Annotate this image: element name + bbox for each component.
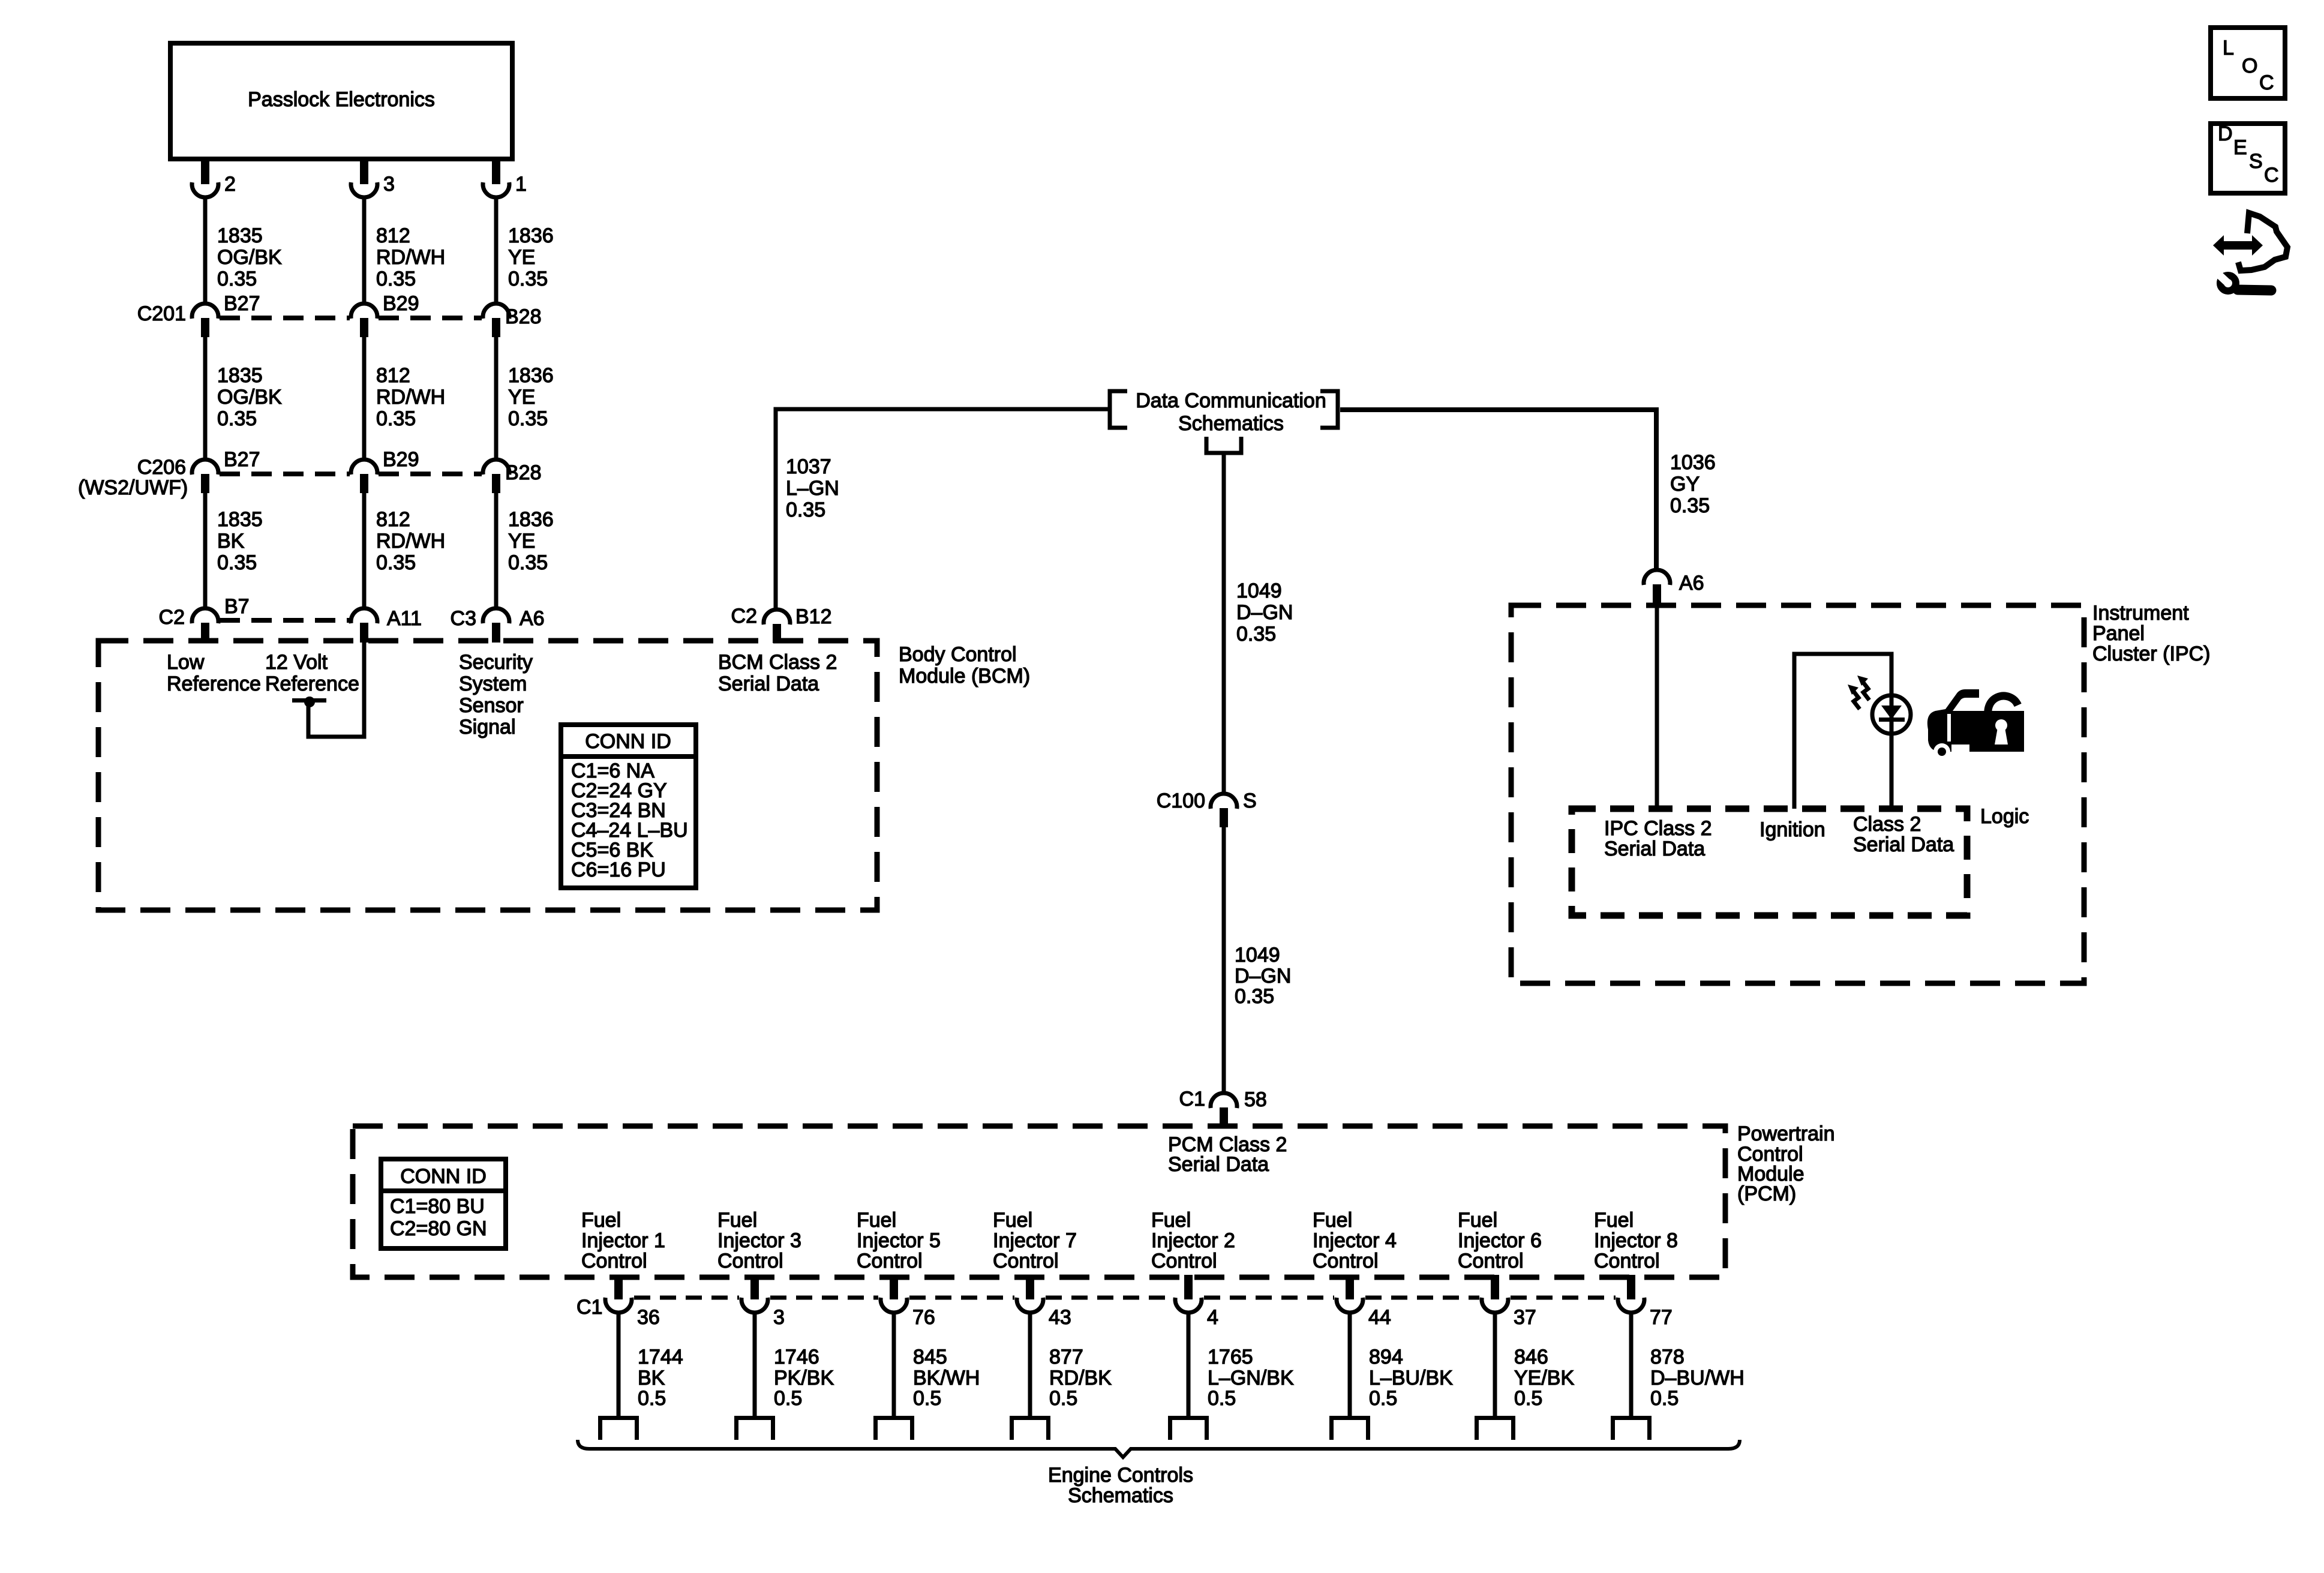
PCM pin 43 connector (injector 7) <box>1017 1275 1071 1329</box>
BCM connector C3 pin A6 <box>451 607 545 643</box>
svg-text:PK/BK: PK/BK <box>774 1367 834 1389</box>
svg-text:YE: YE <box>508 386 535 409</box>
PCM pin 76 connector (injector 5) <box>881 1275 935 1329</box>
svg-text:1836: 1836 <box>508 224 554 247</box>
svg-text:C2: C2 <box>731 605 757 628</box>
svg-text:0.5: 0.5 <box>1208 1387 1236 1410</box>
svg-text:0.35: 0.35 <box>1235 985 1274 1008</box>
svg-text:A11: A11 <box>387 607 422 630</box>
PCM pin 37 connector (injector 6) <box>1482 1275 1536 1329</box>
svg-text:3: 3 <box>383 173 395 196</box>
PCM pin 44 connector (injector 4) <box>1337 1275 1391 1329</box>
svg-text:GY: GY <box>1670 473 1700 496</box>
svg-text:43: 43 <box>1049 1306 1071 1329</box>
Fuel Injector 1 Control label <box>581 1209 665 1272</box>
svg-text:3: 3 <box>773 1306 785 1329</box>
svg-text:Fuel: Fuel <box>1151 1209 1191 1232</box>
svg-text:845: 845 <box>913 1346 947 1368</box>
svg-text:1765: 1765 <box>1208 1346 1253 1368</box>
service harness icon <box>2213 213 2287 291</box>
C206 dashed connector line <box>220 472 482 476</box>
Fuel Injector 3 Control label <box>717 1209 801 1272</box>
wire col3 segment C201 to C206 <box>494 337 499 460</box>
injector 1 harness terminator <box>598 1416 639 1440</box>
Powertrain Control Module (PCM) title <box>1737 1122 1835 1205</box>
Passlock Electronics box <box>170 43 512 159</box>
svg-text:B27: B27 <box>224 292 260 315</box>
injector 8 harness terminator <box>1611 1416 1652 1440</box>
svg-text:Serial Data: Serial Data <box>718 673 819 695</box>
Low Reference label <box>167 651 261 695</box>
Powertrain Control Module (PCM) dashed box <box>353 1126 1725 1277</box>
svg-text:System: System <box>459 673 527 695</box>
svg-text:0.35: 0.35 <box>376 551 416 574</box>
svg-text:0.35: 0.35 <box>217 268 257 290</box>
wire 1765 L–GN/BK segment <box>1187 1313 1191 1416</box>
PCM pin 3 connector (injector 3) <box>741 1275 785 1329</box>
svg-text:A6: A6 <box>520 607 545 630</box>
Passlock pin 1 connector <box>483 158 527 197</box>
svg-text:C1=80 BU: C1=80 BU <box>390 1195 485 1218</box>
svg-text:0.5: 0.5 <box>913 1387 941 1410</box>
IPC Logic dashed box <box>1572 809 1967 915</box>
PCM Class 2 Serial Data label <box>1168 1133 1287 1176</box>
svg-text:Control: Control <box>1151 1250 1217 1272</box>
security icon padlock <box>1977 691 2024 752</box>
wire label 1835 OG/BK 0.35 (upper) <box>217 224 282 290</box>
Class 2 Serial Data label <box>1853 813 1954 856</box>
svg-text:Instrument: Instrument <box>2092 602 2189 625</box>
wire label 1835 BK 0.35 (lower) <box>217 508 263 574</box>
svg-text:O: O <box>2242 55 2257 77</box>
svg-text:Powertrain: Powertrain <box>1737 1122 1835 1145</box>
wire label 812 RD/WH 0.35 (upper) <box>376 224 445 290</box>
C201 dashed connector line <box>220 316 482 320</box>
svg-text:RD/WH: RD/WH <box>376 530 445 553</box>
wire A6 to IPC logic <box>1655 604 1659 809</box>
security icon car <box>1927 689 1979 760</box>
svg-text:D–BU/WH: D–BU/WH <box>1650 1367 1744 1389</box>
svg-text:Passlock Electronics: Passlock Electronics <box>248 88 435 111</box>
wire col2 segment C206 to BCM <box>362 493 367 608</box>
svg-text:C: C <box>2259 71 2274 94</box>
svg-text:Engine Controls: Engine Controls <box>1048 1464 1193 1487</box>
svg-text:D: D <box>2218 122 2233 145</box>
svg-text:OG/BK: OG/BK <box>217 386 282 409</box>
svg-text:Body Control: Body Control <box>899 643 1017 666</box>
PCM connector C1 pin 58 <box>1179 1088 1267 1128</box>
svg-text:Fuel: Fuel <box>1458 1209 1497 1232</box>
svg-text:812: 812 <box>376 508 410 531</box>
svg-text:Reference: Reference <box>265 673 359 695</box>
svg-text:0.35: 0.35 <box>376 407 416 430</box>
wire label 1835 OG/BK 0.35 (middle) <box>217 364 282 430</box>
svg-text:0.5: 0.5 <box>1369 1387 1397 1410</box>
wire label 1836 YE 0.35 (middle) <box>508 364 554 430</box>
svg-text:C1: C1 <box>577 1296 602 1319</box>
BCM pin row dashed line <box>220 618 350 623</box>
wire label 846 YE/BK 0.5 <box>1514 1346 1574 1410</box>
wire label 1746 PK/BK 0.5 <box>774 1346 834 1410</box>
svg-text:B12: B12 <box>795 605 832 628</box>
Body Control Module (BCM) title <box>899 643 1030 688</box>
wire 894 L–BU/BK segment <box>1348 1313 1352 1416</box>
wire label 1744 BK 0.5 <box>638 1346 683 1410</box>
svg-text:Injector 3: Injector 3 <box>717 1229 801 1252</box>
svg-text:C206: C206 <box>137 456 186 479</box>
svg-text:Fuel: Fuel <box>717 1209 757 1232</box>
Instrument Panel Cluster (IPC) title <box>2092 602 2210 665</box>
svg-text:44: 44 <box>1368 1306 1391 1329</box>
Fuel Injector 7 Control label <box>993 1209 1077 1272</box>
svg-text:Class 2: Class 2 <box>1853 813 1921 836</box>
svg-text:Fuel: Fuel <box>993 1209 1032 1232</box>
svg-text:BCM Class 2: BCM Class 2 <box>718 651 837 674</box>
svg-text:B7: B7 <box>224 595 250 618</box>
LED arrows <box>1848 676 1869 709</box>
svg-text:(PCM): (PCM) <box>1737 1182 1796 1205</box>
12 volt reference splice terminal <box>292 697 326 707</box>
svg-text:BK: BK <box>638 1367 665 1389</box>
svg-text:A6: A6 <box>1679 572 1704 595</box>
svg-text:0.35: 0.35 <box>786 499 825 521</box>
svg-text:RD/WH: RD/WH <box>376 386 445 409</box>
wire 877 RD/BK segment <box>1028 1313 1032 1416</box>
wire col3 segment Passlock to C201 <box>494 197 499 304</box>
svg-text:C201: C201 <box>137 302 186 325</box>
Passlock pin 3 connector <box>351 158 395 197</box>
svg-text:Signal: Signal <box>459 716 516 739</box>
svg-text:Fuel: Fuel <box>581 1209 621 1232</box>
svg-text:E: E <box>2233 136 2247 159</box>
svg-text:Reference: Reference <box>167 673 261 695</box>
BCM connector C2 pin B12 <box>731 605 832 643</box>
wire 1049 segment C100 to PCM <box>1222 827 1226 1091</box>
svg-text:D–GN: D–GN <box>1235 965 1291 987</box>
svg-text:S: S <box>1243 789 1257 812</box>
svg-text:0.35: 0.35 <box>1236 623 1276 646</box>
svg-text:Serial Data: Serial Data <box>1168 1153 1269 1176</box>
wire col1 segment C206 to BCM <box>203 493 208 608</box>
svg-text:0.35: 0.35 <box>1670 494 1710 517</box>
svg-text:Injector 7: Injector 7 <box>993 1229 1077 1252</box>
C201 terminal B28 <box>483 304 542 337</box>
wire label 1836 YE 0.35 (upper) <box>508 224 554 290</box>
svg-text:B27: B27 <box>224 448 260 471</box>
wire label 1836 YE 0.35 (lower) <box>508 508 554 574</box>
svg-text:Control: Control <box>717 1250 783 1272</box>
svg-text:37: 37 <box>1514 1306 1536 1329</box>
svg-text:Fuel: Fuel <box>1594 1209 1634 1232</box>
svg-text:4: 4 <box>1207 1306 1218 1329</box>
svg-text:812: 812 <box>376 224 410 247</box>
svg-text:BK/WH: BK/WH <box>913 1367 980 1389</box>
svg-text:Security: Security <box>459 651 533 674</box>
svg-text:Panel: Panel <box>2092 622 2145 645</box>
svg-text:Injector 2: Injector 2 <box>1151 1229 1235 1252</box>
injector 7 harness terminator <box>1010 1416 1050 1440</box>
C201 terminal B29 <box>351 292 419 337</box>
wire 845 BK/WH segment <box>892 1313 896 1416</box>
svg-text:BK: BK <box>217 530 245 553</box>
svg-text:878: 878 <box>1650 1346 1685 1368</box>
injector 2 harness terminator <box>1168 1416 1209 1440</box>
wire 878 D–BU/WH segment <box>1629 1313 1634 1416</box>
svg-text:RD/WH: RD/WH <box>376 246 445 269</box>
svg-text:1037: 1037 <box>786 455 831 478</box>
svg-text:1835: 1835 <box>217 224 263 247</box>
svg-text:Control: Control <box>1313 1250 1379 1272</box>
svg-text:Injector 6: Injector 6 <box>1458 1229 1542 1252</box>
svg-text:L–BU/BK: L–BU/BK <box>1369 1367 1453 1389</box>
svg-text:1744: 1744 <box>638 1346 683 1368</box>
svg-text:0.35: 0.35 <box>376 268 416 290</box>
PCM CONN ID rows <box>390 1195 487 1240</box>
svg-text:Fuel: Fuel <box>1313 1209 1352 1232</box>
svg-text:1049: 1049 <box>1236 580 1282 602</box>
wire col1 segment Passlock to C201 <box>203 197 208 304</box>
wire 1746 PK/BK segment <box>753 1313 757 1416</box>
BCM CONN ID table <box>561 725 696 888</box>
LOC icon box <box>2211 28 2285 98</box>
svg-text:0.5: 0.5 <box>1650 1387 1679 1410</box>
security indicator LED <box>1872 695 1911 734</box>
svg-text:C6=16 PU: C6=16 PU <box>571 858 666 881</box>
svg-text:B28: B28 <box>505 461 542 484</box>
svg-text:0.5: 0.5 <box>638 1387 666 1410</box>
Data Communication Schematics right bracket <box>1320 391 1338 428</box>
svg-text:Serial Data: Serial Data <box>1604 837 1705 860</box>
svg-text:C2: C2 <box>159 606 185 629</box>
svg-text:Fuel: Fuel <box>857 1209 896 1232</box>
svg-text:Sensor: Sensor <box>459 694 524 717</box>
svg-text:L: L <box>2223 37 2234 59</box>
Engine Controls Schematics label <box>1048 1464 1193 1507</box>
svg-text:1835: 1835 <box>217 508 263 531</box>
wire 1036 GY from DCS to IPC <box>1340 410 1656 568</box>
svg-text:77: 77 <box>1650 1306 1673 1329</box>
svg-text:36: 36 <box>637 1306 660 1329</box>
svg-text:846: 846 <box>1514 1346 1548 1368</box>
svg-text:12 Volt: 12 Volt <box>265 651 328 674</box>
svg-text:1049: 1049 <box>1235 944 1280 966</box>
svg-text:IPC Class 2: IPC Class 2 <box>1604 817 1712 840</box>
Engine Controls Schematics brace <box>578 1440 1740 1457</box>
svg-text:RD/BK: RD/BK <box>1049 1367 1112 1389</box>
wire label 1049 D-GN 0.35 (lower) <box>1235 944 1291 1008</box>
BCM connector C2 pin B7 <box>159 595 250 643</box>
svg-text:Control: Control <box>1458 1250 1524 1272</box>
svg-text:C100: C100 <box>1157 789 1205 812</box>
svg-text:(WS2/UWF): (WS2/UWF) <box>78 476 188 499</box>
BCM Class 2 Serial Data label <box>718 651 837 695</box>
wire 1037 L-GN from DCS to BCM <box>776 409 1108 608</box>
svg-text:OG/BK: OG/BK <box>217 246 282 269</box>
DCS lower bracket <box>1206 437 1241 453</box>
Passlock pin 2 connector <box>192 158 236 197</box>
Security System Sensor Signal label <box>459 651 533 739</box>
svg-text:1746: 1746 <box>774 1346 819 1368</box>
wire col2 segment C201 to C206 <box>362 337 367 460</box>
Fuel Injector 2 Control label <box>1151 1209 1235 1272</box>
Fuel Injector 5 Control label <box>857 1209 941 1272</box>
svg-text:Module (BCM): Module (BCM) <box>899 665 1030 688</box>
svg-text:Schematics: Schematics <box>1068 1484 1173 1507</box>
svg-text:Injector 1: Injector 1 <box>581 1229 665 1252</box>
wire label 1765 L–GN/BK 0.5 <box>1208 1346 1294 1410</box>
svg-text:YE/BK: YE/BK <box>1514 1367 1574 1389</box>
wire label 812 RD/WH 0.35 (lower) <box>376 508 445 574</box>
svg-text:1835: 1835 <box>217 364 263 387</box>
svg-text:Control: Control <box>993 1250 1059 1272</box>
wire label 1049 D-GN 0.35 (upper) <box>1236 580 1293 646</box>
C201 terminal B27 <box>192 292 260 337</box>
PCM pin 36 connector (injector 1) <box>605 1275 660 1329</box>
svg-text:0.35: 0.35 <box>217 551 257 574</box>
svg-text:0.35: 0.35 <box>508 551 548 574</box>
C206 terminal B28 <box>483 460 542 493</box>
wire 12V reference from A11 <box>308 643 364 737</box>
svg-text:B28: B28 <box>505 305 542 328</box>
svg-text:1: 1 <box>515 173 527 196</box>
IPC connector pin A6 <box>1644 570 1704 604</box>
12 Volt Reference label <box>265 651 359 695</box>
svg-text:58: 58 <box>1244 1088 1267 1111</box>
wire col2 segment Passlock to C201 <box>362 197 367 304</box>
svg-text:S: S <box>2249 150 2263 173</box>
svg-text:Injector 8: Injector 8 <box>1594 1229 1678 1252</box>
Data Communication Schematics label <box>1136 389 1326 435</box>
svg-text:Low: Low <box>167 651 205 674</box>
wire label 894 L–BU/BK 0.5 <box>1369 1346 1453 1410</box>
svg-text:Injector 5: Injector 5 <box>857 1229 941 1252</box>
injector 3 harness terminator <box>734 1416 775 1440</box>
wire 1049 stem from DCS <box>1222 453 1226 792</box>
svg-text:D–GN: D–GN <box>1236 601 1293 624</box>
IPC Class 2 Serial Data label <box>1604 817 1712 860</box>
DESC icon box <box>2211 122 2285 193</box>
svg-text:0.5: 0.5 <box>1049 1387 1077 1410</box>
wire col3 segment C206 to BCM <box>494 493 499 608</box>
svg-text:0.35: 0.35 <box>217 407 257 430</box>
injector 5 harness terminator <box>873 1416 914 1440</box>
Data Communication Schematics left bracket <box>1110 391 1127 428</box>
svg-text:812: 812 <box>376 364 410 387</box>
connector C100 pin S <box>1157 789 1257 827</box>
PCM CONN ID table <box>381 1159 506 1248</box>
svg-text:2: 2 <box>224 173 236 196</box>
svg-text:877: 877 <box>1049 1346 1083 1368</box>
PCM C1 dashed connector line <box>634 1296 1616 1300</box>
svg-text:0.35: 0.35 <box>508 407 548 430</box>
svg-text:YE: YE <box>508 530 535 553</box>
svg-text:Cluster (IPC): Cluster (IPC) <box>2092 643 2210 665</box>
svg-text:1836: 1836 <box>508 508 554 531</box>
svg-text:0.35: 0.35 <box>508 268 548 290</box>
wire 846 YE/BK segment <box>1493 1313 1497 1416</box>
connector C206 (WS2/UWF) label <box>78 456 188 499</box>
wire label 877 RD/BK 0.5 <box>1049 1346 1112 1410</box>
svg-text:1836: 1836 <box>508 364 554 387</box>
svg-text:L–GN/BK: L–GN/BK <box>1208 1367 1294 1389</box>
svg-text:B29: B29 <box>383 292 419 315</box>
svg-text:76: 76 <box>912 1306 935 1329</box>
svg-text:CONN ID: CONN ID <box>585 730 671 753</box>
svg-text:0.5: 0.5 <box>1514 1387 1542 1410</box>
svg-text:CONN ID: CONN ID <box>400 1165 487 1188</box>
Fuel Injector 4 Control label <box>1313 1209 1397 1272</box>
BCM CONN ID rows <box>571 760 688 881</box>
wire col1 segment C201 to C206 <box>203 337 208 460</box>
svg-text:1036: 1036 <box>1670 451 1716 474</box>
svg-text:Control: Control <box>581 1250 647 1272</box>
svg-text:C2=80 GN: C2=80 GN <box>390 1217 487 1240</box>
wire label 878 D–BU/WH 0.5 <box>1650 1346 1744 1410</box>
wire label 1037 L-GN 0.35 <box>786 455 839 521</box>
PCM pin 77 connector (injector 8) <box>1618 1275 1673 1329</box>
svg-text:Serial Data: Serial Data <box>1853 833 1954 856</box>
svg-text:Control: Control <box>857 1250 923 1272</box>
svg-text:YE: YE <box>508 246 535 269</box>
wire label 845 BK/WH 0.5 <box>913 1346 980 1410</box>
wire label 812 RD/WH 0.35 (middle) <box>376 364 445 430</box>
svg-text:C: C <box>2264 164 2279 187</box>
svg-text:Schematics: Schematics <box>1178 412 1284 435</box>
C206 terminal B29 <box>351 448 419 493</box>
svg-text:Logic: Logic <box>1980 805 2029 828</box>
wire label 1036 GY 0.35 <box>1670 451 1716 517</box>
svg-text:Control: Control <box>1594 1250 1660 1272</box>
Instrument Panel Cluster (IPC) dashed box <box>1511 605 2084 983</box>
svg-text:894: 894 <box>1369 1346 1403 1368</box>
svg-text:Data Communication: Data Communication <box>1136 389 1326 412</box>
svg-text:C1: C1 <box>1179 1088 1205 1110</box>
BCM pin A11 <box>351 607 422 643</box>
svg-text:Injector 4: Injector 4 <box>1313 1229 1397 1252</box>
Body Control Module (BCM) dashed box <box>98 641 877 910</box>
PCM pin 4 connector (injector 2) <box>1175 1275 1218 1329</box>
Fuel Injector 6 Control label <box>1458 1209 1542 1272</box>
Fuel Injector 8 Control label <box>1594 1209 1678 1272</box>
svg-text:0.5: 0.5 <box>774 1387 802 1410</box>
svg-text:L–GN: L–GN <box>786 477 839 500</box>
svg-text:B29: B29 <box>383 448 419 471</box>
svg-text:C3: C3 <box>451 607 476 630</box>
wire 1744 BK segment <box>617 1313 621 1416</box>
svg-text:Ignition: Ignition <box>1759 818 1825 841</box>
ignition wire branch <box>1794 654 1891 809</box>
injector 6 harness terminator <box>1475 1416 1515 1440</box>
C206 terminal B27 <box>192 448 260 493</box>
injector 4 harness terminator <box>1329 1416 1370 1440</box>
